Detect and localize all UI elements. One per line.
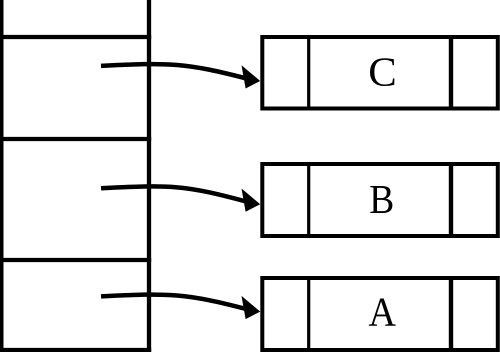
array divider 3 [0, 258, 151, 262]
arrow 2 wire [101, 186, 250, 202]
svg-text:A: A [369, 290, 397, 335]
array divider 2 [0, 137, 151, 141]
node A box [262, 278, 498, 350]
array left edge [0, 0, 4, 352]
array bottom edge [0, 348, 151, 352]
node B box [262, 164, 498, 236]
node B divider 1 [307, 162, 310, 238]
arrow 2 head [242, 189, 261, 212]
array divider 1 [0, 35, 151, 39]
node A divider 1 [307, 276, 310, 352]
node C divider 2 [449, 35, 453, 111]
arrow 1 head [242, 65, 261, 88]
node C box [262, 37, 498, 109]
svg-text:C: C [368, 49, 397, 94]
arrow 3 head [242, 296, 261, 319]
svg-text:B: B [369, 177, 394, 222]
node B divider 2 [449, 162, 453, 238]
arrow 3 wire [101, 295, 250, 310]
node A divider 2 [449, 276, 453, 352]
node C divider 1 [307, 35, 310, 111]
array right edge [147, 0, 151, 352]
arrow 1 wire [101, 64, 250, 79]
